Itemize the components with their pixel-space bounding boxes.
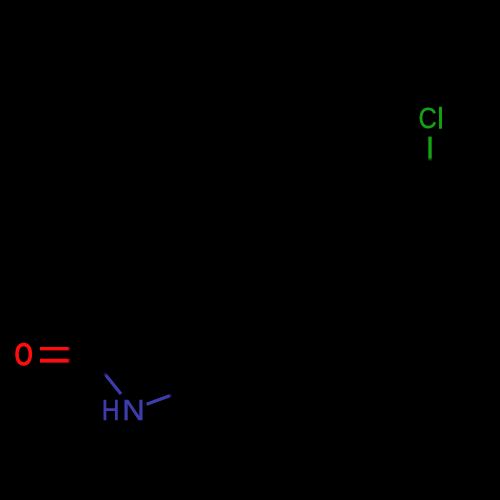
svg-text:H: H (102, 394, 120, 426)
svg-text:C: C (419, 102, 437, 135)
bond N-C(=O) blue half (up-left diagonal) (104, 373, 121, 394)
svg-text:O: O (14, 338, 33, 374)
double bond C=O upper red half (40, 347, 71, 350)
double bond C=O lower red half (40, 359, 71, 363)
bond N-C blue half (right diagonal) (147, 395, 172, 404)
svg-text:l: l (437, 103, 443, 135)
bond Cl-C (green half, vertical) (428, 137, 431, 162)
svg-text:N: N (122, 395, 145, 427)
